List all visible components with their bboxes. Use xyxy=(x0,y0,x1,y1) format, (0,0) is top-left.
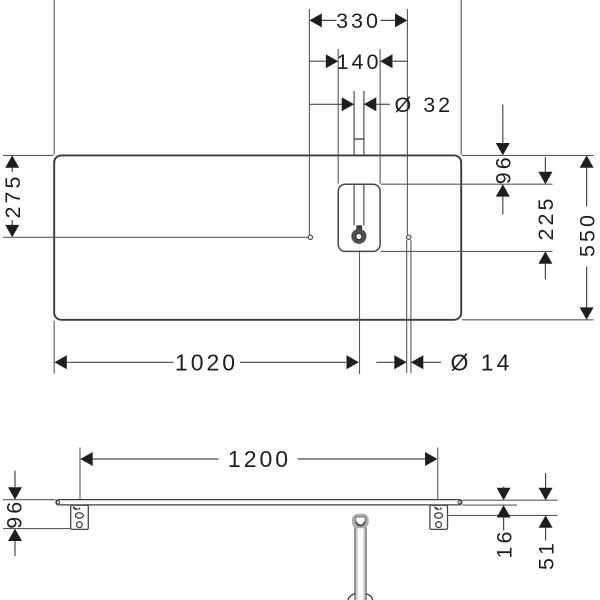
dimension 550 (far right, vertical) xyxy=(575,155,599,319)
svg-text:Ø 14: Ø 14 xyxy=(451,349,513,375)
drain ring xyxy=(354,231,365,242)
dimension 96 (bottom left, vertical) xyxy=(3,471,27,556)
svg-text:16: 16 xyxy=(492,529,516,559)
shelf right end cap xyxy=(458,501,461,504)
svg-text:1020: 1020 xyxy=(175,349,238,375)
faucet hole slot lines lower (inside basin) xyxy=(354,185,364,226)
wall bracket right xyxy=(430,505,448,529)
left edge extension above xyxy=(53,0,55,155)
reference line shelf top left xyxy=(3,499,56,501)
svg-text:96: 96 xyxy=(3,499,27,529)
wall bracket left xyxy=(71,505,89,529)
extension line 140 left xyxy=(337,49,339,184)
dimension 140 xyxy=(309,50,407,74)
faucet hole slot lines upper xyxy=(354,91,364,155)
dimension 330 xyxy=(309,9,407,33)
drain flange at floor xyxy=(348,593,373,600)
console top reference line left xyxy=(3,154,53,156)
extension line 330 left xyxy=(308,9,310,235)
dimension 51 (bottom right, vertical) xyxy=(534,473,558,570)
reference line bracket bottom left xyxy=(3,528,70,530)
dimension 1200 xyxy=(80,446,438,500)
svg-text:550: 550 xyxy=(575,212,599,257)
dimension 16 (bottom right, vertical) xyxy=(492,487,516,559)
basin top reference line xyxy=(381,183,553,185)
drain trap nut xyxy=(352,514,369,528)
basin bottom reference line xyxy=(381,250,553,252)
shelf left end cap xyxy=(56,501,59,504)
dimension 225 (right, vertical) xyxy=(534,157,558,280)
extension line 330 right xyxy=(406,9,408,235)
drain notch xyxy=(356,225,362,230)
dimension 96 (right, vertical) xyxy=(492,105,516,215)
extension line 140 right xyxy=(379,49,381,184)
reference line shelf top right xyxy=(462,499,557,501)
svg-text:96: 96 xyxy=(492,154,516,184)
hole dia 14 extension lines xyxy=(407,240,411,373)
svg-text:Ø 32: Ø 32 xyxy=(395,93,454,117)
console top reference line right xyxy=(462,154,594,156)
drain center extension line xyxy=(359,252,361,374)
reference line bracket slot right xyxy=(448,514,557,516)
mounting hole left xyxy=(308,235,312,239)
svg-text:330: 330 xyxy=(336,9,381,33)
drain pipe xyxy=(355,527,366,600)
dimension dia 14 xyxy=(376,349,512,375)
dimension 1020 xyxy=(54,349,359,375)
right edge extension above xyxy=(460,0,462,155)
console outline (top view) xyxy=(54,155,461,319)
svg-text:51: 51 xyxy=(534,540,558,570)
svg-text:140: 140 xyxy=(337,50,382,74)
reference line shelf bottom right xyxy=(462,504,517,506)
mounting hole right xyxy=(407,235,411,239)
dimension 275 (left, vertical) xyxy=(1,155,25,237)
console bottom reference line right xyxy=(462,319,594,321)
hole centerline xyxy=(3,236,308,238)
svg-text:1200: 1200 xyxy=(228,446,291,472)
basin cutout (rounded rect) xyxy=(338,184,380,251)
left edge extension below xyxy=(53,321,55,374)
shelf (front elevation) xyxy=(56,500,462,505)
svg-text:275: 275 xyxy=(1,174,25,219)
dimension dia 32 xyxy=(309,93,453,117)
svg-text:225: 225 xyxy=(534,196,558,241)
